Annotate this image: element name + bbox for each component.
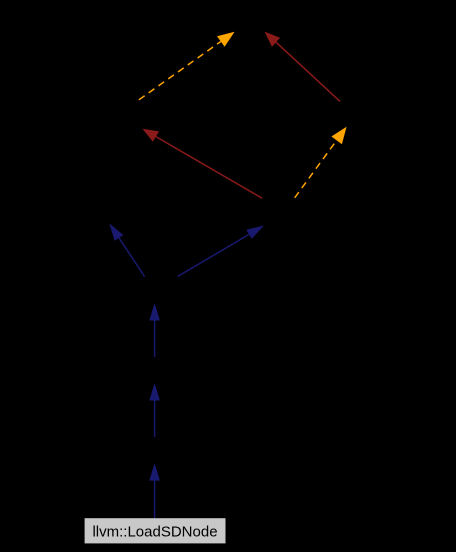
wire edge llvm::MemSDNode -> llvm::SDNode (public inheritance, midnightblue) (149, 303, 160, 357)
wire edge llvm::ilist_node_impl< node_options > -> llvm::ilist_node_impl< OptionsT > (template instance, orange dashed) (139, 32, 235, 100)
node llvm::MemSDNode (invisible on black) (110, 357, 200, 385)
node llvm::ilist_node< NodeTy > (invisible on black) (302, 100, 384, 128)
node llvm::SDNode (invisible on black) (120, 277, 196, 305)
node llvm::LSBaseSDNode (invisible on black) (100, 437, 210, 465)
wire edge llvm::LoadSDNode -> llvm::LSBaseSDNode (public inheritance, midnightblue) (149, 463, 160, 518)
wire edge llvm::ilist_node< SDNode > -> llvm::ilist_node_impl (private inheritance, firebrick) (142, 129, 262, 199)
node llvm::FoldingSetBase::Node (invisible on black) (60, 196, 160, 224)
wire edge llvm::ilist_node< NodeTy > -> llvm::ilist_node_impl< OptionsT > (private inheritance, firebrick) (265, 32, 341, 102)
node llvm::ilist_node< SDNode > (invisible on black) (228, 198, 312, 226)
wire edge llvm::SDNode -> llvm::FoldingSetBase::Node (public inheritance, midnightblue) (109, 223, 144, 276)
wire edge llvm::SDNode -> llvm::ilist_node< SDNode > (public inheritance, midnightblue) (178, 226, 264, 277)
node llvm::ilist_node_impl< node_options > (invisible on black) (96, 101, 190, 129)
wire edge llvm::ilist_node< SDNode > -> llvm::ilist_node< NodeTy > (template instance, orange dashed) (295, 127, 347, 198)
node llvm::ilist_node_impl< OptionsT > (invisible on black) (196, 4, 300, 32)
node llvm::LoadSDNode (current node, grey fill) (85, 518, 226, 543)
svg-text:llvm::LoadSDNode: llvm::LoadSDNode (92, 524, 217, 541)
wire edge llvm::LSBaseSDNode -> llvm::MemSDNode (public inheritance, midnightblue) (149, 383, 160, 437)
